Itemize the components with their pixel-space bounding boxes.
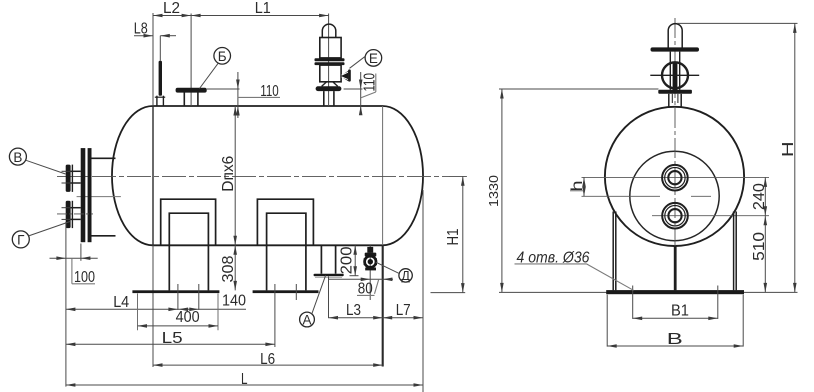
end view valve: handwheel circle [662, 62, 688, 88]
nozzle B (top) centerline/extension [190, 14, 192, 107]
svg-text:80: 80 [358, 280, 373, 297]
support 2 saddle [257, 199, 313, 245]
dim 110 top (valve E) [344, 88, 363, 90]
valve E dome cap [322, 24, 336, 37]
dim L3 [329, 317, 383, 319]
support 1 saddle [161, 199, 216, 245]
svg-text:L6: L6 [260, 351, 275, 368]
right tangent extension (thick) for L3/L7/L6 [382, 245, 384, 366]
svg-text:100: 100 [74, 269, 95, 286]
dim 400 [138, 325, 219, 327]
end view: lower nozzle centerline [652, 215, 769, 217]
end view: base bottom extension line [499, 291, 798, 293]
valve E body [320, 38, 341, 58]
end view: bolt hole axes / B1 extensions [632, 286, 634, 319]
right end extension line [422, 190, 424, 392]
valve E inlet flange [316, 86, 342, 91]
svg-text:L2: L2 [163, 0, 180, 17]
svg-text:510: 510 [751, 231, 768, 260]
nozzle B flange [176, 88, 207, 93]
svg-text:L4: L4 [113, 294, 129, 311]
svg-text:H: H [780, 141, 797, 157]
vessel shell (side view) [153, 105, 383, 107]
end view valve: dome capsule [668, 24, 682, 52]
end view valve: stem sides [669, 52, 671, 90]
nozzle G pipe [71, 207, 81, 209]
dim 110 top (nozzle B) [207, 88, 240, 90]
centerline solid segment at H1 [449, 176, 467, 178]
valve E flange band 1 [315, 58, 345, 61]
dim 308 (shell bottom to base) [233, 245, 237, 255]
end view: horizontal centerline [582, 176, 770, 178]
big flange extension for 100 [80, 244, 82, 261]
right head tangent/weld line [382, 106, 384, 245]
svg-text:h: h [569, 181, 586, 192]
valve E side knob fan [340, 71, 348, 82]
end view: right support leg [733, 212, 735, 291]
svg-text:110: 110 [260, 83, 279, 100]
end view valve: neck [668, 94, 670, 108]
svg-text:Dпх6: Dпх6 [220, 156, 237, 192]
nozzle A flange [314, 274, 344, 277]
dim L4 + 140 line [66, 308, 246, 310]
dim 240 [764, 177, 766, 215]
end view: B extensions [606, 295, 608, 347]
left neck cylinder [91, 157, 115, 159]
svg-text:L3: L3 [346, 302, 361, 319]
main horizontal centerline [57, 176, 467, 178]
nozzle V pipe [71, 170, 81, 172]
dim h [583, 177, 585, 196]
end view valve: stem bar [673, 63, 678, 91]
big end flange plate 1 [81, 148, 86, 242]
end view: lower nozzle flange [662, 203, 688, 229]
svg-text:Г: Г [17, 233, 25, 248]
svg-text:Б: Б [218, 49, 227, 64]
valve D bottom plate [365, 268, 376, 271]
valve D side lobes [364, 258, 366, 265]
callout circle B(noz) [214, 48, 231, 65]
svg-text:140: 140 [222, 292, 246, 309]
valve E skirt [322, 82, 327, 86]
end view: head inner circle [630, 151, 719, 240]
support 1 anchor bolt extensions [177, 284, 179, 310]
svg-text:L5: L5 [162, 330, 183, 347]
svg-text:Д: Д [401, 269, 410, 283]
end view valve: T-bar [651, 47, 700, 51]
nozzle B pipe [183, 93, 185, 107]
svg-text:L1: L1 [255, 0, 271, 17]
svg-text:400: 400 [176, 309, 200, 326]
left flange faces extension line [65, 222, 67, 387]
dim L8 [134, 35, 153, 37]
end view: upper nozzle flange [662, 165, 688, 191]
end view: vertical centerline [674, 18, 676, 258]
dim 100 [50, 257, 98, 259]
level gauge lower fitting [156, 96, 158, 106]
end view: base plate [606, 290, 744, 294]
valve D stem [367, 247, 373, 253]
valve E inlet pipe [323, 91, 325, 106]
svg-text:В: В [13, 150, 22, 165]
support 2 leg [267, 213, 306, 290]
dim H1 [431, 292, 466, 294]
level gauge rod [159, 61, 162, 96]
dim L2 [153, 15, 191, 17]
svg-text:H1: H1 [445, 229, 462, 246]
support 2 base plate [253, 290, 319, 293]
callout circle V [9, 148, 26, 165]
callout circle D [399, 269, 412, 282]
right dished head [383, 106, 424, 245]
callout circle E [365, 50, 382, 67]
big end flange plate 2 [88, 148, 92, 242]
nozzle G centerline [57, 213, 93, 215]
thin seam line between nozzles [77, 196, 121, 198]
dim 1330 [499, 88, 659, 90]
nozzle A centerline extension [328, 277, 330, 319]
dim B [607, 345, 743, 347]
support 1 leg [169, 213, 208, 290]
valve D body ring [365, 256, 376, 267]
nozzle G flange [66, 201, 71, 228]
dim L7 [383, 317, 423, 319]
nozzle A pipe [320, 245, 322, 273]
svg-text:200: 200 [339, 246, 356, 274]
drain valve D centerline [369, 245, 371, 300]
svg-text:А: А [302, 313, 311, 328]
svg-text:1330: 1330 [487, 175, 501, 207]
end view: vessel circle [605, 107, 744, 246]
dim H [677, 22, 798, 24]
nozzle G counterflange line [71, 201, 73, 228]
support 1 base plate [132, 290, 219, 293]
valve D center dot [368, 260, 372, 264]
dim L5 [66, 343, 275, 345]
valve E flange band 2 [315, 62, 345, 65]
callout circle A [300, 312, 315, 327]
dim L6 [153, 364, 383, 366]
end view: h reference line [582, 195, 661, 197]
svg-text:L8: L8 [134, 21, 148, 38]
valve D top plate [365, 253, 377, 257]
support 2 anchor bolt extensions [274, 284, 276, 347]
callout circle G [12, 231, 29, 248]
dim L [66, 384, 423, 386]
svg-text:110: 110 [361, 73, 378, 92]
dim Dn x6 (shell diameter) [234, 106, 236, 290]
svg-text:308: 308 [220, 256, 237, 283]
svg-text:L: L [241, 371, 248, 388]
nozzle V bolt ticks [62, 170, 71, 172]
end view valve: flange [658, 90, 692, 94]
nozzle V counterflange line [71, 165, 73, 192]
dim 80 (valve D) [329, 278, 393, 280]
nozzle V flange [66, 165, 71, 192]
dim 200 (nozzle A) [354, 245, 356, 275]
svg-text:B: B [667, 331, 683, 348]
svg-text:240: 240 [751, 183, 768, 210]
svg-text:L7: L7 [396, 302, 411, 319]
svg-text:Е: Е [369, 51, 378, 66]
dim L1 [191, 15, 329, 17]
end view: center support leg [674, 246, 677, 290]
left dished head [112, 106, 153, 245]
support 1 slot extensions [137, 293, 139, 330]
nozzle G bolt ticks [62, 207, 71, 209]
left head tangent/weld line + extension for L2,L6 [152, 13, 154, 367]
svg-text:B1: B1 [671, 303, 689, 320]
valve E lower body [320, 65, 341, 82]
dim B1 [633, 317, 718, 319]
end view: left support leg [612, 212, 614, 291]
dim 510 [764, 216, 766, 293]
safety valve E centerline [328, 14, 330, 107]
